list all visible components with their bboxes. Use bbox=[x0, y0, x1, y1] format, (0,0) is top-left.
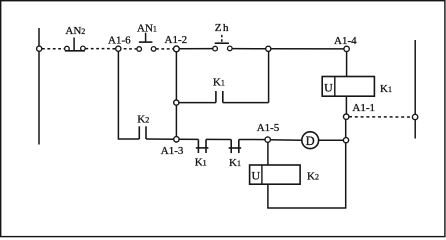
motor D bbox=[302, 132, 319, 149]
wire: contact K1b to A1-5 bbox=[239, 139, 268, 141]
pushbutton AN2 (NC stop button) bbox=[65, 38, 86, 51]
relay contact K1a (bridge contact) bbox=[196, 139, 209, 153]
pushbutton AN1 (NO start button) bbox=[137, 33, 156, 52]
node A1-5 bbox=[265, 137, 270, 142]
wire: A1-5 down to coil K2 bbox=[267, 140, 269, 165]
svg-text:A1-3: A1-3 bbox=[161, 145, 184, 157]
wire: A1-6 down to K2 contact bbox=[118, 49, 139, 139]
node A1-3 bbox=[174, 137, 179, 142]
svg-text:U: U bbox=[251, 169, 260, 183]
wire: right branch riser (A1-1 to bottom return) bbox=[345, 117, 347, 208]
wire: A1-2 down to A1-3 bbox=[175, 49, 177, 139]
wire: AN2 to A1-6 (dashed) bbox=[85, 48, 115, 50]
node: holding branch tap bbox=[174, 100, 179, 105]
wire: between contacts K1a and K1b bbox=[206, 138, 231, 140]
svg-text:U: U bbox=[324, 80, 333, 94]
svg-text:AN1: AN1 bbox=[137, 23, 157, 35]
relay contact K2 (NO) bbox=[139, 126, 146, 139]
left power rail bbox=[38, 28, 40, 145]
wire: holding branch from A1-2 line to contact K1 bbox=[176, 102, 216, 104]
wire: left rail to AN2 (dashed) bbox=[42, 48, 64, 50]
node A1-2 bbox=[174, 46, 180, 52]
svg-text:K1: K1 bbox=[229, 157, 241, 169]
relay coil K1 (voltage coil, U marking) bbox=[322, 77, 374, 97]
node A1-1 bbox=[344, 114, 349, 119]
limit switch contact Zh (NO) bbox=[213, 35, 232, 51]
wire: motor D to right branch node bbox=[318, 139, 346, 141]
node A1-6 bbox=[116, 46, 121, 51]
wire: A1-4 down to coil K1 bbox=[346, 49, 348, 77]
node: left rail terminal bbox=[37, 46, 42, 51]
svg-text:A1-2: A1-2 bbox=[165, 34, 188, 46]
svg-text:K2: K2 bbox=[137, 114, 149, 126]
node: right rail terminal bbox=[412, 114, 417, 119]
wire: coil K2 to bottom return bbox=[267, 184, 269, 208]
wire: holding branch riser to top wire bbox=[268, 49, 270, 103]
svg-text:K2: K2 bbox=[307, 171, 319, 183]
svg-text:D: D bbox=[306, 134, 315, 148]
wire: A1-2 to Zh bbox=[176, 48, 212, 50]
wire: K2 contact to A1-3 bbox=[146, 138, 176, 140]
svg-text:K1: K1 bbox=[195, 157, 207, 169]
wire: A1-5 to motor D bbox=[268, 139, 302, 142]
wire: A1-3 to contact K1a bbox=[176, 138, 198, 140]
right power rail bbox=[414, 40, 416, 139]
svg-text:AN2: AN2 bbox=[65, 25, 85, 37]
svg-text:K1: K1 bbox=[380, 83, 392, 95]
wire: A1-1 to right rail (dashed) bbox=[349, 116, 412, 118]
wire: bottom return bbox=[267, 207, 346, 209]
relay contact K1 (self-holding, NO) bbox=[216, 91, 223, 103]
junction node of holding branch on top wire bbox=[266, 46, 271, 51]
relay coil K2 (voltage coil, U marking) bbox=[250, 165, 301, 184]
relay contact K1b (bridge contact) bbox=[229, 140, 242, 154]
wire: Zh to holding-branch junction bbox=[232, 48, 268, 50]
wire: contact K1 to riser bbox=[223, 102, 269, 104]
node: motor-coil junction bbox=[343, 138, 348, 143]
svg-text:A1-1: A1-1 bbox=[352, 102, 375, 114]
wire: AN1 to A1-2 (dashed) bbox=[156, 48, 173, 50]
svg-text:A1-4: A1-4 bbox=[334, 35, 357, 47]
svg-text:A1-5: A1-5 bbox=[257, 122, 280, 134]
svg-text:A1-6: A1-6 bbox=[108, 35, 131, 47]
node A1-4 bbox=[344, 46, 349, 51]
wire: junction to A1-4 bbox=[268, 48, 346, 50]
svg-text:K1: K1 bbox=[213, 77, 225, 89]
wire: A1-6 to AN1 (dashed) bbox=[118, 48, 136, 50]
wire: coil K1 to A1-1 bbox=[345, 96, 347, 117]
